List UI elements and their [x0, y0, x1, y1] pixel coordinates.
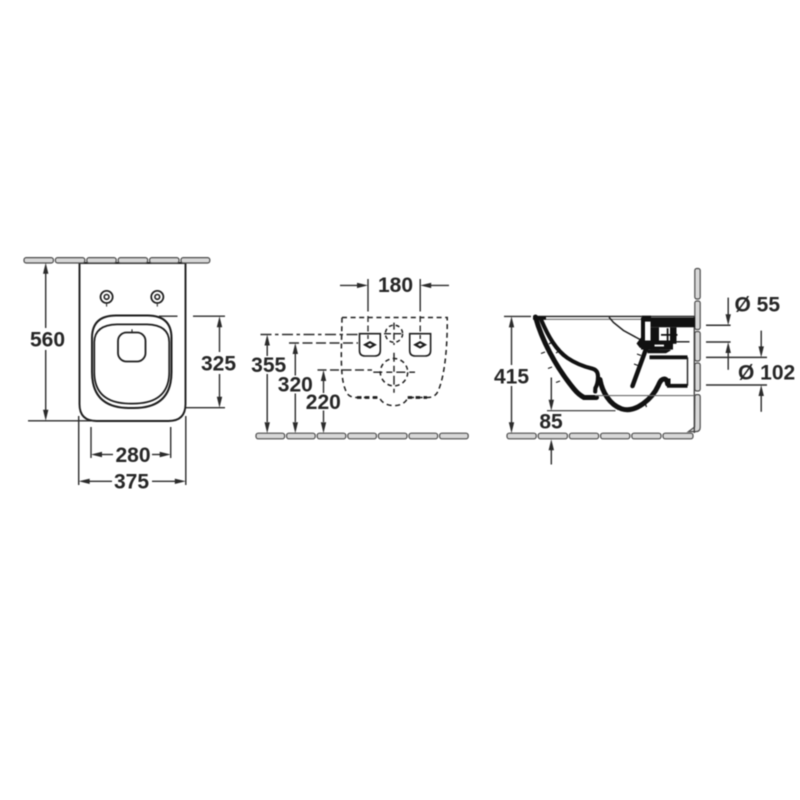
ceramic bottom back edge — [595, 395, 694, 397]
inner shell curve — [541, 320, 598, 392]
cross mark — [661, 334, 678, 336]
fixing hole left — [101, 291, 113, 303]
dim D102 arrows — [760, 331, 762, 347]
dim 280 — [91, 427, 171, 458]
bowl inner rim — [94, 324, 169, 403]
inlet socket right column — [651, 327, 660, 350]
dim 180 — [340, 279, 449, 341]
svg-text:Ø 55: Ø 55 — [735, 294, 781, 317]
pipe centreline dash — [676, 341, 690, 343]
dashed rear outline — [341, 318, 447, 406]
fixing hole left (square) — [360, 334, 381, 356]
flush outlet hole — [118, 333, 146, 362]
bowl outer rim — [92, 316, 172, 409]
floor tile strip — [256, 433, 468, 439]
corner thickening — [533, 316, 546, 319]
svg-text:375: 375 — [114, 471, 149, 494]
socket slot (white) — [645, 322, 651, 339]
ceramic top surface — [533, 315, 694, 317]
dim 320 — [289, 343, 358, 422]
dim 220 — [318, 370, 373, 422]
inlet socket left column — [641, 318, 645, 342]
ext lines right dims — [706, 325, 767, 385]
dim 85 arrows — [550, 378, 552, 401]
dim 560 line — [28, 271, 93, 421]
dim D55 arrows — [727, 298, 729, 315]
dim 375 — [79, 416, 186, 485]
inlet pipe bar — [641, 318, 695, 328]
spreader white slit — [655, 345, 665, 347]
spreader bridge — [641, 341, 673, 350]
drain outlet circle — [380, 359, 407, 386]
toilet body (top view) — [80, 263, 186, 421]
floor tile strip — [507, 433, 693, 439]
outlet box bottom — [667, 384, 688, 388]
spreader lip slab — [648, 350, 672, 354]
wall tile strip (vertical) — [688, 269, 700, 432]
wall tile strip (plan) — [24, 258, 210, 263]
hatch ticks — [541, 342, 647, 411]
svg-text:180: 180 — [378, 274, 413, 297]
diamond left — [363, 341, 377, 349]
trap U curve — [600, 379, 668, 410]
dim 355 — [261, 335, 360, 423]
svg-text:280: 280 — [115, 444, 150, 467]
dim 415 — [504, 316, 531, 424]
svg-text:Ø 102: Ø 102 — [738, 362, 795, 385]
svg-text:415: 415 — [494, 366, 529, 389]
fixing hole right — [151, 291, 163, 303]
water inlet circle — [385, 325, 402, 342]
wall face line — [693, 316, 695, 433]
bowl back wall diagonal — [633, 345, 648, 386]
dim 325 line — [159, 316, 225, 408]
fixing hole right (square) — [410, 334, 431, 356]
bowl back top thin line — [609, 317, 640, 339]
spreader base wedge — [637, 338, 646, 349]
outer front shell — [536, 317, 597, 398]
spreader right column — [670, 327, 677, 344]
svg-text:85: 85 — [539, 411, 563, 434]
svg-text:220: 220 — [306, 391, 341, 414]
svg-text:560: 560 — [30, 329, 65, 352]
85 reference line — [547, 410, 616, 412]
outlet box top — [650, 355, 688, 359]
outlet box right — [687, 357, 689, 386]
heavier bottom dashes — [357, 396, 380, 399]
svg-text:325: 325 — [201, 353, 236, 376]
outlet box left stub — [667, 379, 670, 387]
diamond right — [413, 341, 427, 349]
